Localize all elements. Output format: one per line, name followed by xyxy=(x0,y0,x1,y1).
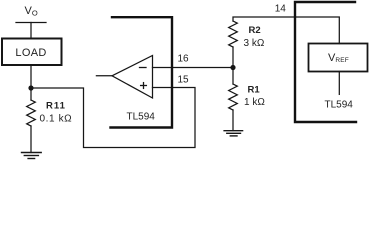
svg-text:1 kΩ: 1 kΩ xyxy=(244,97,265,108)
svg-text:14: 14 xyxy=(275,3,287,14)
svg-text:R11: R11 xyxy=(46,101,66,112)
svg-text:3 kΩ: 3 kΩ xyxy=(244,38,265,49)
svg-text:R1: R1 xyxy=(248,85,261,96)
svg-text:TL594: TL594 xyxy=(325,100,354,111)
svg-text:0.1 kΩ: 0.1 kΩ xyxy=(40,114,73,125)
svg-text:R2: R2 xyxy=(249,25,261,36)
svg-text:LOAD: LOAD xyxy=(15,47,46,59)
svg-text:TL594: TL594 xyxy=(127,111,156,122)
svg-text:16: 16 xyxy=(178,54,190,65)
svg-text:15: 15 xyxy=(178,75,190,86)
